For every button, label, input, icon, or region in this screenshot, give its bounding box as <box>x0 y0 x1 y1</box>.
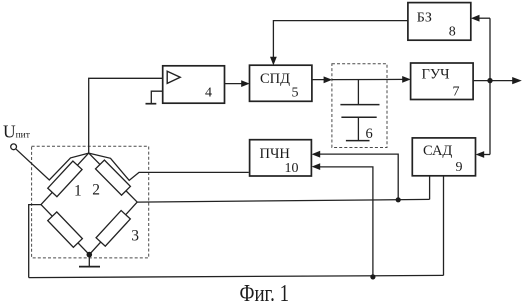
svg-text:БЗ: БЗ <box>417 10 432 25</box>
wire output junction to circuit output <box>490 80 513 82</box>
Upit terminal circle <box>11 144 17 150</box>
svg-text:СПД: СПД <box>260 71 290 87</box>
block 8 BZ <box>408 3 471 41</box>
arrowhead circuit output <box>512 77 522 84</box>
capacitor C bottom plate <box>341 116 376 118</box>
svg-text:Фиг. 1: Фиг. 1 <box>240 281 290 303</box>
wire into BZ 8 input <box>474 17 490 19</box>
arrowhead into SPD 5 top from BZ feedback <box>270 57 277 66</box>
bridge arm bottom-left wire <box>41 205 89 255</box>
wire vertical feedback bus right side <box>489 18 491 154</box>
wire bottom junction to PChN input 2 <box>315 167 373 277</box>
svg-text:пит: пит <box>16 130 31 140</box>
wire through block 6 to GUCh 7 <box>332 78 407 80</box>
capacitor bottom terminal bar <box>346 140 370 142</box>
bridge arm top-right wire <box>89 153 138 202</box>
svg-text:9: 9 <box>456 160 463 175</box>
capacitor lower lead <box>357 117 359 140</box>
svg-text:7: 7 <box>453 85 460 100</box>
wire SAD 9 second lead down to bottom rail <box>443 176 445 276</box>
arrowhead into block 6 <box>324 76 333 83</box>
arrowhead into GUCh 7 <box>402 76 411 83</box>
resistor 1 body (top-left arm) <box>48 161 82 197</box>
svg-text:3: 3 <box>131 228 139 245</box>
arrowhead into SPD 5 from amp 4 <box>241 80 250 87</box>
svg-text:ПЧН: ПЧН <box>260 146 291 162</box>
ground stub below bridge <box>88 255 90 266</box>
junction dot on bottom rail <box>370 274 375 279</box>
wire into SAD 9 input <box>479 154 490 156</box>
svg-text:10: 10 <box>285 161 299 176</box>
block 7 GUCh <box>411 63 474 100</box>
resistor 4 body (bottom-right arm) <box>96 211 130 247</box>
svg-text:1: 1 <box>74 182 82 199</box>
svg-text:6: 6 <box>366 126 373 142</box>
arrowhead into SAD 9 <box>476 151 485 158</box>
wire junction to PChN input 1 <box>315 154 398 200</box>
svg-text:4: 4 <box>205 86 212 101</box>
wire SAD 9 lower lead to measuring rail <box>429 176 431 200</box>
arrowhead into PChN 10 input 1 <box>312 151 321 158</box>
wire bridge top node to amplifier input <box>89 78 163 153</box>
arrowhead into BZ 8 <box>471 15 480 22</box>
wire bridge top node tap to PChN 10 <box>89 153 249 180</box>
wire measuring rail from bridge right node <box>137 199 429 202</box>
resistor 2 body (top-right arm) <box>96 160 131 195</box>
dashed box around bridge (sensor block) <box>32 146 149 258</box>
junction dot on measuring rail <box>396 197 401 202</box>
wire Upit terminal to bridge top node <box>16 149 89 180</box>
svg-text:САД: САД <box>423 143 452 159</box>
block 10 PChN <box>250 140 312 176</box>
wire GUCh 7 output to junction <box>473 80 490 82</box>
block 9 SAD <box>412 138 475 176</box>
ground bar below bridge <box>79 266 100 268</box>
svg-text:8: 8 <box>449 24 456 39</box>
svg-text:2: 2 <box>92 181 100 198</box>
junction dot at output <box>487 78 492 83</box>
bridge arm bottom-right wire <box>89 202 137 255</box>
arrowhead into PChN 10 input 2 <box>312 163 321 170</box>
dashed box around capacitor block 6 <box>332 64 387 148</box>
block 5 SPD <box>250 65 312 101</box>
wire bottom supply rail <box>29 275 444 277</box>
junction dot bridge bottom node <box>87 252 93 258</box>
amplifier triangle symbol <box>167 71 180 83</box>
svg-text:5: 5 <box>292 86 299 101</box>
svg-text:U: U <box>3 122 16 142</box>
svg-text:ГУЧ: ГУЧ <box>422 67 450 83</box>
capacitor C top plate <box>340 104 379 106</box>
resistor 3 body (bottom-left arm) <box>48 212 83 247</box>
capacitor lead from signal line <box>357 80 359 104</box>
block 4 amplifier <box>163 66 225 103</box>
bridge arm top-left wire <box>41 153 89 205</box>
wire SPD 5 output to block 6 <box>312 79 329 81</box>
wire bridge left node stub to bottom rail <box>29 205 41 278</box>
wire amp 4 output to SPD 5 <box>225 83 247 85</box>
wire BZ 8 output feedback to SPD 5 top <box>273 21 408 62</box>
wire amp second input to ground <box>151 91 162 103</box>
ground bar at amplifier input <box>146 103 157 105</box>
